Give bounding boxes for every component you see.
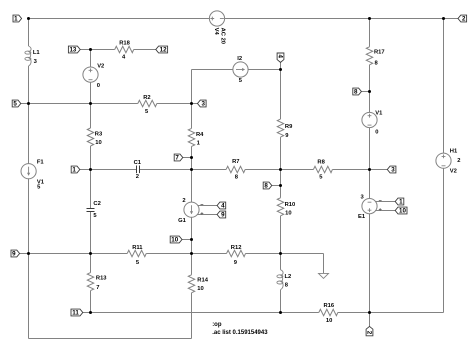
wire column x4 I2 row to R9 [280,70,282,120]
wire E1 bottom to row6 [369,214,371,313]
wire G1 bottom to row5 [191,217,193,239]
node 2 flag top-right [458,15,467,23]
wire H1 column top [443,19,445,154]
wire R3 top lead [90,104,92,129]
wire node8b flag stub [361,91,369,93]
wire bottom rail [29,338,192,340]
voltage source V1 [362,111,383,136]
resistor R16 [319,303,338,324]
node 3 flag at R8 [387,166,396,174]
svg-text:L1: L1 [33,50,41,56]
svg-text:12: 12 [160,47,167,54]
svg-text:8: 8 [264,183,268,190]
wire row5 node9 to R11 [29,253,128,255]
svg-text:G1: G1 [178,218,187,224]
resistor R10 [277,198,295,217]
node 4 flag above I2 junction [277,53,284,62]
node 1 flag at E1 [395,198,404,206]
wire C1 right lead [140,169,192,171]
wire node3 stub [192,103,198,105]
svg-text:R8: R8 [317,159,325,165]
wire x3 node7 to C1 row [191,158,193,170]
wire I2 row left [192,69,233,71]
current source I2 [233,56,248,84]
svg-text:R14: R14 [197,277,208,283]
svg-text:R9: R9 [285,124,293,130]
resistor R18 [115,41,134,61]
svg-text:2: 2 [457,158,460,164]
svg-text:3: 3 [391,167,395,174]
svg-text:AC 20: AC 20 [220,28,226,44]
svg-text:1: 1 [399,199,403,206]
node 9 flag row5 [11,250,20,258]
wire left column L1 to F1 [28,66,30,164]
resistor R8 [313,159,332,180]
capacitor C2 [87,201,101,219]
wire C2 bottom lead [90,212,92,254]
resistor R4 [188,128,204,146]
svg-text:10: 10 [197,286,203,292]
node 4 flag at G1 [217,202,226,210]
wire R9 bottom lead [280,137,282,169]
inductor L2 [277,270,291,290]
wire R4 bottom lead [191,146,193,157]
node 5 flag [12,100,21,108]
wire left column node9 to bottom [28,254,30,339]
svg-text:R2: R2 [143,95,150,101]
svg-text:3: 3 [201,101,205,108]
svg-text:10: 10 [326,318,332,324]
node 12 flag [156,46,168,54]
wire x5 C1 row to E1 [369,170,371,199]
svg-text:E1: E1 [358,214,366,220]
dependent voltage source E1 [358,195,395,220]
node 1 flag at C1 row [71,166,80,174]
wire row6 node11 to L2 [91,312,281,314]
node 7 flag [174,154,183,162]
svg-text:4: 4 [277,55,284,59]
svg-text:1: 1 [72,167,76,174]
voltage source V2 [83,64,104,89]
resistor R14 [188,275,208,293]
svg-text:V1: V1 [375,111,383,117]
resistor R11 [127,245,146,266]
wire row node5 to R2 [29,103,138,105]
svg-text:13: 13 [69,47,76,54]
svg-text:8: 8 [354,89,358,96]
svg-text:9: 9 [221,212,225,219]
node 13 flag [68,46,80,54]
inductor L1 [25,46,41,66]
wire C2 top lead [90,170,92,209]
wire row5 junction to ground [281,253,324,255]
svg-text:10: 10 [95,140,101,146]
wire R8 left lead [281,169,314,171]
svg-text:0: 0 [375,130,378,136]
svg-text:R11: R11 [132,245,143,251]
dependent voltage source H1 [436,149,461,175]
wire top rail V4 to node2 flag [225,18,458,20]
wire R4 top lead [191,104,193,129]
wire R18 right lead to node12 flag [134,49,156,51]
wire V2 stem top [90,50,92,68]
wire R13 top lead [90,254,92,273]
analysis text [212,322,268,336]
svg-text:2: 2 [182,198,185,204]
svg-text:R3: R3 [95,131,103,137]
svg-text:2: 2 [136,174,139,180]
wire R8 right lead [332,169,369,171]
svg-text:9: 9 [12,251,16,258]
node 3 flag at R2 [198,100,207,108]
svg-text:10: 10 [171,237,178,244]
wire R3 bottom lead [90,146,92,170]
wire column x3 up to I2 row [191,70,193,104]
svg-text:7: 7 [175,155,179,162]
wire R11 right lead [146,253,191,255]
svg-text:R12: R12 [231,245,242,251]
svg-text:R16: R16 [324,303,335,309]
wire node7 flag stub [183,157,192,159]
svg-text:F1: F1 [37,160,45,166]
resistor R2 [138,95,157,115]
svg-text:2: 2 [462,16,466,23]
wire R17 top lead [369,19,371,47]
wire node11 flag stub [83,312,91,314]
resistor R9 [277,119,293,139]
wire R14 bottom to bottom rail [191,293,193,339]
resistor R17 [366,47,384,67]
svg-text:10: 10 [399,208,406,215]
node 11 flag [71,309,83,317]
node 9 flag at G1 [217,211,226,219]
svg-text:R7: R7 [232,159,239,165]
svg-text:C1: C1 [134,160,142,166]
svg-text:10: 10 [285,211,291,217]
node 10 flag at E1 [395,207,407,215]
dependent current source G1 [178,198,217,224]
resistor R13 [87,273,107,291]
svg-text:V2: V2 [97,64,104,70]
capacitor C1 [134,160,142,180]
svg-text:5: 5 [13,101,17,108]
wire R17 bottom lead [369,65,371,92]
wire H1 column bottom [443,168,445,312]
wire x4 C1 row to node8 junction [280,170,282,186]
svg-text:R17: R17 [374,50,385,56]
wire V1 stem top [369,92,371,113]
svg-text:H1: H1 [450,149,458,155]
wire V2 stem bottom [90,82,92,103]
wire R16 right lead [338,312,370,314]
wire C1 left lead [91,169,137,171]
wire node4 flag stem [280,62,282,69]
wire node1 flag stub to x2 [80,169,91,171]
resistor R12 [227,245,246,266]
svg-text:V2: V2 [450,169,457,175]
wire R13 bottom lead [90,291,92,313]
wire R7 right lead [245,169,280,171]
wire R10 bottom lead [280,216,282,254]
wire node3b stub [370,169,388,171]
wire R16 left lead [281,312,319,314]
ground [319,273,329,278]
node 1 flag top-left [13,15,22,23]
wire node9 flag stub [20,253,29,255]
wire node2 bottom flag stem [369,313,371,327]
svg-text:7: 7 [96,285,99,291]
wire R14 top lead [191,254,193,275]
node 2 flag bottom [366,326,373,335]
svg-text::op: :op [212,322,222,328]
wire node8a flag stub [272,185,281,187]
wire row6 H1 corner to node2 junction [370,312,444,314]
wire R18 left lead [91,49,115,51]
node 10 flag at G1 bottom [170,236,182,244]
svg-text:0: 0 [97,83,100,89]
svg-text:R13: R13 [96,276,107,282]
wire R12 right lead [246,253,281,255]
svg-text:C2: C2 [93,201,100,207]
wire L2 top lead [280,254,282,270]
wire R10 top lead [280,186,282,198]
svg-text:2: 2 [366,331,373,335]
wire I2 row right [248,69,280,71]
svg-text:R4: R4 [196,132,204,138]
svg-text:I2: I2 [237,56,242,62]
node 8 flag at R10 [263,182,272,190]
wire G1 top from C1 row [191,170,193,203]
wire node13 flag to V2 junction [80,49,90,51]
svg-text:.ac list 0.159154943: .ac list 0.159154943 [212,330,268,336]
wire node5 flag to left column [21,103,29,105]
wire R7 left lead [192,169,227,171]
svg-text:R10: R10 [285,202,296,208]
svg-text:L2: L2 [285,274,292,280]
resistor R3 [87,128,103,146]
wire left column node1 to L1 [28,19,30,47]
wire L2 bottom lead [280,290,282,313]
svg-text:1: 1 [14,16,18,23]
wire V1 stem bottom [369,128,371,170]
wire R2 right lead [157,103,192,105]
node 8 flag at R17 [353,88,362,96]
resistor R7 [226,159,245,181]
svg-text:11: 11 [72,310,79,317]
dependent current source F1 [21,160,45,191]
svg-text:V4: V4 [213,28,219,36]
voltage source V4 [209,11,225,44]
wire left column F1 to node9 [28,179,30,254]
wire R12 left lead [192,253,227,255]
wire top rail node1 to V4 [29,18,210,20]
wire node10 flag stub [182,239,192,241]
svg-text:R18: R18 [119,41,130,47]
svg-text:4: 4 [221,203,225,210]
